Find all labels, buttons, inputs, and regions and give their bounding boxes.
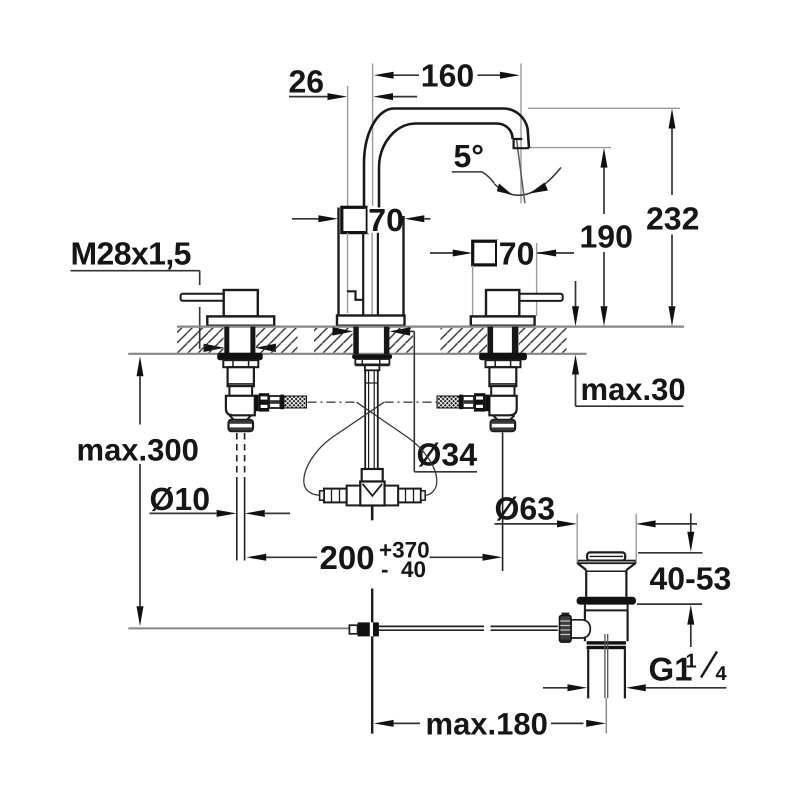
rod clamp small block — [349, 625, 357, 634]
svg-text:Ø10: Ø10 — [150, 481, 210, 517]
body inner edge line lower — [347, 233, 349, 313]
left valve backnut (black) — [217, 353, 263, 360]
svg-text:70: 70 — [499, 236, 535, 272]
left hose dash-dot centreline — [308, 401, 357, 403]
left lever handle — [181, 294, 226, 301]
drain taper — [578, 563, 636, 570]
rod clamp (black) — [358, 622, 379, 636]
right hose dash-dot centreline — [385, 401, 438, 403]
drain neck — [586, 570, 626, 597]
right valve locknut — [486, 360, 521, 367]
drain neck joint line — [586, 570, 626, 572]
left pipe hidden (dashed) — [237, 433, 245, 478]
dimension 26 line and arrows — [289, 96, 417, 98]
left shank thread bands in deck — [224, 327, 255, 354]
deck bottom line — [128, 353, 586, 355]
dimension 34 arrows at centre shank — [333, 327, 411, 335]
right valve elbow — [489, 396, 516, 416]
svg-text:Ø63: Ø63 — [495, 491, 555, 527]
spout tube lines inside body — [363, 233, 378, 315]
left hose nut (black) — [255, 395, 259, 412]
svg-text:max.300: max.300 — [77, 433, 199, 468]
right shank thread bands in deck — [488, 327, 519, 354]
right lever handle — [517, 294, 562, 301]
faucet base plate — [337, 316, 405, 326]
centre collar — [365, 365, 380, 370]
svg-text:26: 26 — [289, 64, 325, 100]
tee right hex nut — [398, 489, 421, 503]
left valve mid section — [229, 386, 252, 396]
left handle base plate — [207, 316, 274, 325]
svg-text:40-53: 40-53 — [650, 561, 732, 597]
tee left hex nut — [324, 489, 347, 503]
body centre line lower — [371, 233, 373, 315]
extension lines of right 70 dim — [472, 266, 474, 317]
svg-text:200: 200 — [320, 539, 375, 576]
O63 dimension — [495, 523, 698, 525]
right valve mid section — [491, 386, 514, 396]
svg-text:232: 232 — [646, 201, 699, 237]
spout base L-step — [347, 291, 363, 300]
G1 1/4 dimension — [543, 687, 727, 689]
drain body — [585, 610, 628, 641]
svg-text:70: 70 — [368, 202, 404, 238]
dimension 190 line and arrows — [603, 168, 605, 307]
drain shoulder — [585, 605, 628, 611]
svg-text:4: 4 — [716, 663, 728, 685]
centre supply tube — [365, 370, 378, 469]
extension line x=521 (spout tip) — [520, 64, 522, 204]
200 dimension — [266, 556, 482, 558]
centre locknut — [355, 359, 389, 364]
max.300 dimension — [139, 376, 141, 606]
drain cap — [587, 552, 625, 560]
tee right arm — [385, 486, 399, 506]
deck top line — [177, 326, 684, 328]
svg-text:160: 160 — [421, 58, 474, 94]
right compression nut — [491, 420, 515, 431]
40-53 dimension — [637, 513, 703, 647]
right hose collar (black) — [459, 395, 463, 410]
dimension 70 right arrows — [430, 252, 574, 254]
spout outer profile — [364, 109, 529, 208]
left pipe O10 solid — [237, 478, 245, 561]
dimension 26 label — [289, 64, 325, 100]
tee top nut — [362, 469, 383, 482]
right valve body — [489, 367, 516, 386]
extension line y=147.6 to 190 dim — [529, 147, 612, 149]
svg-text:- 40: - 40 — [381, 557, 426, 582]
extension line x=347.6 (26 left) — [347, 86, 349, 207]
svg-text:M28x1,5: M28x1,5 — [71, 236, 191, 272]
svg-text:1: 1 — [686, 651, 697, 673]
dimension 232 line and arrows — [671, 129, 673, 307]
deck hatching — [177, 328, 567, 353]
drain flange — [578, 561, 636, 564]
extension/centre line x=372.6 upper — [372, 64, 374, 207]
M28 thread arrows — [204, 344, 276, 352]
left braided hose — [284, 396, 307, 408]
drain O-ring (black) — [577, 597, 636, 605]
drain centreline below — [605, 698, 607, 733]
drain inner stem — [605, 634, 608, 698]
centre faucet backnut (black) — [352, 354, 392, 359]
max.30 dimension — [576, 281, 684, 406]
right valve backnut (black) — [479, 353, 527, 360]
max.180 dimension — [394, 722, 584, 724]
5 deg tilted outlet axis — [517, 140, 525, 204]
M28 leader lines — [71, 271, 200, 349]
extension line y=108.3 to 232 dim — [528, 107, 680, 109]
tee V notch — [363, 484, 383, 496]
drain tailpipe — [588, 649, 625, 698]
right valve outlet taper — [493, 415, 515, 420]
svg-text:190: 190 — [580, 219, 633, 255]
square symbol 70 (right valve) — [473, 241, 497, 265]
tee left arm — [347, 486, 361, 506]
dimension 34 leader — [410, 331, 477, 471]
svg-text:max.180: max.180 — [426, 707, 548, 742]
svg-text:5°: 5° — [454, 138, 485, 174]
horizontal actuating rod — [379, 626, 558, 630]
reference plane line — [128, 627, 350, 629]
tee body — [360, 482, 384, 506]
hose crossing curve left-to-right — [357, 402, 437, 495]
5 deg leader and angle arc — [452, 168, 561, 196]
right handle body — [486, 290, 519, 316]
label 70 (right valve) — [497, 240, 535, 267]
right braided hose — [437, 396, 459, 408]
left hose collar (black) — [280, 395, 284, 410]
drain knob top nub — [562, 613, 570, 616]
drain knob stem housing — [571, 620, 590, 638]
left compression nut — [229, 420, 254, 431]
drain bottom coupling (black bars) — [587, 641, 626, 644]
left handle body — [224, 290, 258, 316]
pull rod upper — [371, 506, 374, 521]
left valve body — [228, 367, 254, 386]
dimension 70 centre arrows — [292, 218, 431, 220]
O10 dimension — [150, 512, 291, 514]
left hose ferrule — [269, 396, 280, 408]
right valve centre line down — [502, 433, 504, 572]
drain knob (knurled, dark) — [560, 616, 572, 642]
left valve outlet taper — [229, 415, 251, 420]
centre shank thread bands in deck — [353, 327, 389, 354]
svg-text:max.30: max.30 — [581, 372, 686, 407]
square symbol 70 (centre spout) — [342, 207, 368, 232]
hose crossing curve right-to-left — [304, 402, 384, 495]
left valve elbow — [226, 396, 255, 416]
spout inner profile — [379, 124, 513, 208]
dimension 160 line and arrows — [394, 74, 500, 76]
right hose nut (black) — [485, 395, 489, 412]
spout outlet piece — [513, 139, 529, 148]
pull rod lower — [371, 589, 373, 734]
faucet body sides — [339, 208, 404, 316]
O63 extension lines — [577, 514, 636, 563]
5 deg arc arrowheads — [497, 183, 548, 196]
tee right end cap — [421, 491, 425, 500]
tee left end cap — [320, 491, 324, 500]
label 70 (centre spout) — [368, 206, 403, 234]
right handle base plate — [471, 316, 535, 325]
left valve locknut — [223, 360, 258, 367]
right hose ferrule — [463, 396, 474, 408]
drain knob bottom cap — [561, 640, 571, 643]
